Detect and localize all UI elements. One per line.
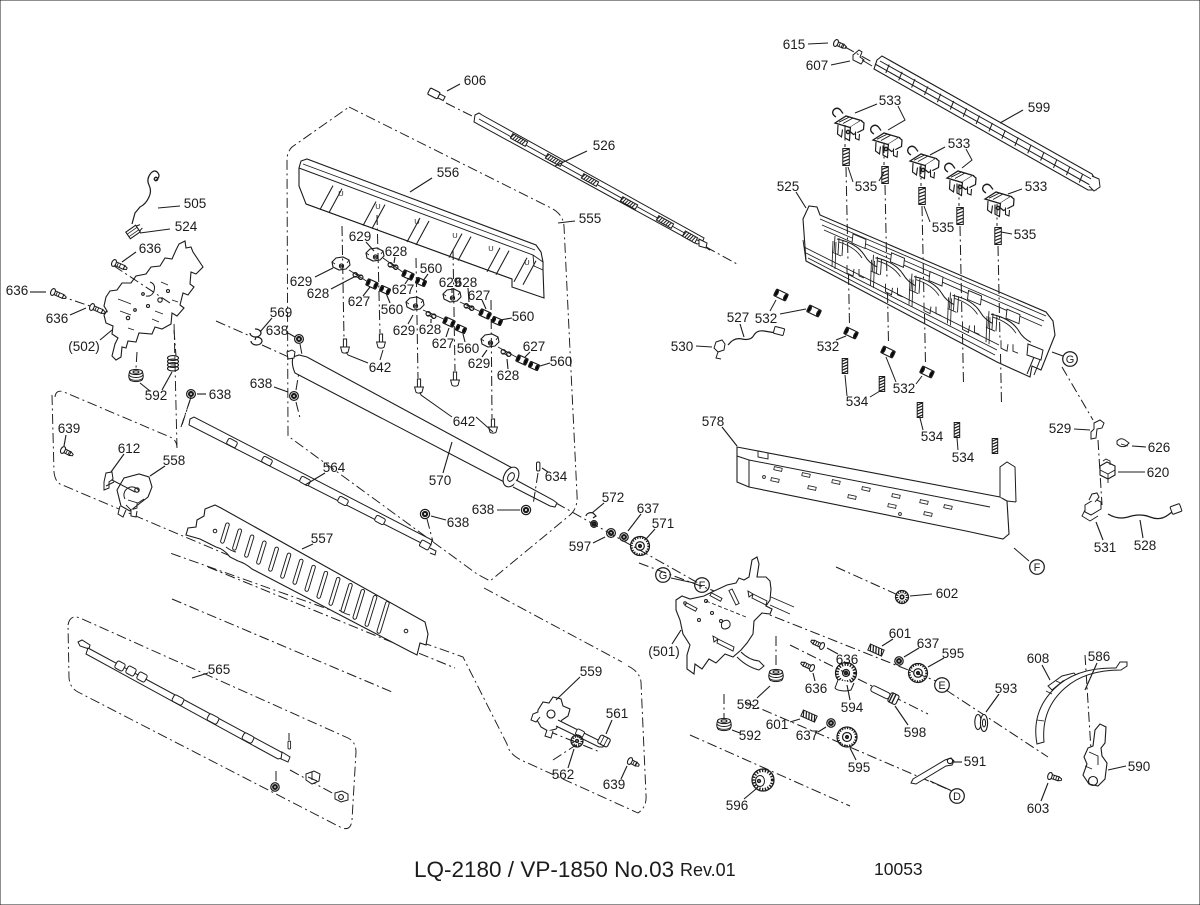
screw 636 b (50, 288, 68, 301)
svg-text:U: U (452, 231, 457, 240)
label 560 r2a (500, 309, 534, 324)
label 532 c (886, 357, 922, 396)
spring 534 #2 (879, 377, 885, 392)
svg-text:642: 642 (453, 414, 476, 429)
label 533 c (1008, 179, 1047, 194)
chain line row2 (423, 302, 481, 320)
label 556 (410, 165, 459, 192)
label 627 r2a (468, 288, 491, 309)
svg-text:612: 612 (118, 441, 141, 456)
svg-text:F: F (1034, 562, 1041, 574)
label 591 (953, 754, 986, 769)
svg-text:531: 531 (1094, 540, 1117, 555)
label 627 r1b (348, 287, 371, 309)
axis 525 to 529 (1062, 367, 1093, 420)
svg-text:628: 628 (385, 244, 408, 259)
axis 596 line (690, 735, 850, 806)
link 628 #5 (500, 349, 511, 357)
axis roller 570 to 571 gear (556, 503, 700, 584)
cable 528 (1108, 504, 1182, 519)
label 626 (1132, 440, 1170, 455)
lower paper guide 578 (737, 447, 1016, 539)
screw 636 lower-b (800, 660, 816, 673)
label 560 r3 (540, 354, 572, 369)
bushing 560 #3 (455, 324, 467, 334)
axis clip #3 (921, 164, 926, 364)
svg-text:570: 570 (429, 473, 452, 488)
axis 586 vertical (1085, 655, 1091, 750)
svg-text:Rev.01: Rev.01 (680, 860, 736, 880)
svg-text:525: 525 (777, 179, 800, 194)
axis 602 (836, 567, 898, 595)
svg-text:LQ-2180 / VP-1850 No.03: LQ-2180 / VP-1850 No.03 (414, 857, 674, 882)
label 629 r1b (290, 268, 333, 289)
label 629 r2b (393, 315, 416, 338)
label 637 a (628, 501, 659, 531)
axis clip #4 (959, 184, 964, 384)
screw 642 #5 (489, 419, 498, 433)
svg-text:564: 564 (323, 460, 346, 475)
label 636 c (46, 308, 86, 326)
link 628 #1 (352, 272, 363, 280)
phantom outline box 555 upper (287, 107, 577, 581)
svg-text:637: 637 (796, 728, 819, 743)
label 634 (542, 468, 568, 484)
label 629 r1a (349, 229, 374, 251)
circle D (950, 789, 965, 804)
svg-text:628: 628 (307, 286, 330, 301)
shaft 598 (869, 683, 899, 705)
plug 606 (427, 88, 445, 102)
axis 638 f (181, 400, 190, 427)
label 615 (783, 37, 828, 52)
chain line row1 (349, 258, 404, 282)
axis 501 to E circle (722, 596, 936, 681)
label 628 r1a (385, 244, 408, 263)
bracket 607 (853, 50, 872, 66)
svg-text:D: D (953, 791, 961, 803)
svg-text:638: 638 (250, 376, 273, 391)
label 628 r2a (455, 275, 478, 302)
svg-text:592: 592 (739, 728, 762, 743)
svg-text:572: 572 (602, 490, 625, 505)
gear 596 (752, 769, 774, 791)
svg-text:597: 597 (569, 539, 592, 554)
spring 601 a (868, 644, 884, 656)
label 596 (726, 789, 756, 813)
phantom outline box 565 lower-left (68, 617, 356, 829)
svg-text:527: 527 (727, 310, 750, 325)
gear 602 (896, 591, 909, 604)
roller holder 629 #3 (406, 297, 424, 310)
svg-text:U: U (414, 217, 419, 226)
gear 594 (835, 663, 857, 691)
label 561 (606, 706, 629, 734)
label 590 (1108, 759, 1150, 774)
label 636 b (6, 283, 46, 298)
label 527 (727, 310, 750, 337)
svg-text:533: 533 (948, 136, 971, 151)
leader G-F (671, 578, 694, 583)
axis clip #2 (884, 143, 889, 343)
svg-text:532: 532 (893, 381, 916, 396)
pin 565 axis (288, 733, 291, 749)
svg-text:636: 636 (46, 311, 69, 326)
tractor frame 525 (803, 206, 1055, 377)
axis 564 tip (181, 397, 191, 428)
label 534 c (952, 438, 975, 465)
label 560 r1a (420, 261, 443, 281)
label 534 b (920, 418, 944, 444)
caption model number (414, 857, 736, 882)
circle G right (1063, 352, 1078, 367)
label 637 c (796, 727, 826, 743)
screw 642 #3 (415, 379, 424, 393)
label 578 (702, 414, 737, 446)
bushing 532 #1 (774, 289, 789, 301)
svg-text:638: 638 (266, 323, 289, 338)
label 594 (841, 685, 864, 715)
label 629 r2a (439, 275, 462, 293)
label 528 (1134, 520, 1157, 553)
tractor clip 533 #3 (908, 146, 939, 178)
svg-text:634: 634 (545, 469, 568, 484)
tractor clip 533 #5 (983, 184, 1014, 216)
svg-text:535: 535 (932, 220, 955, 235)
label 529 (1049, 421, 1090, 436)
label 533 b (930, 136, 972, 168)
label 530 (671, 339, 712, 354)
label 592 b (737, 686, 770, 712)
pulley 593 (975, 715, 988, 732)
label 532 b (817, 336, 846, 354)
label 557 (302, 531, 333, 549)
axis 638e (427, 519, 433, 542)
bushing 560 #1 (379, 285, 391, 295)
axis 638 g (296, 372, 300, 418)
label 636 lower-b (805, 673, 828, 696)
svg-text:620: 620 (1147, 465, 1170, 480)
spring 535 #2 (882, 167, 889, 184)
washer 597 (607, 529, 616, 538)
svg-text:596: 596 (726, 798, 749, 813)
screw 636 lower-a (810, 638, 826, 651)
svg-text:601: 601 (889, 626, 912, 641)
svg-text:628: 628 (419, 322, 442, 337)
arm 608 (1048, 673, 1077, 690)
roller holder 629 #2 (366, 248, 384, 261)
bracket 590 (1083, 724, 1107, 786)
svg-text:638: 638 (472, 502, 495, 517)
wire 527 (728, 326, 785, 345)
svg-text:528: 528 (1134, 538, 1157, 553)
washer 637 b (895, 657, 903, 665)
svg-text:627: 627 (392, 282, 415, 297)
axis holder3 (416, 258, 418, 378)
axis 529 vertical (1098, 440, 1102, 505)
svg-text:592: 592 (737, 697, 760, 712)
nut 565 axis (335, 791, 348, 802)
spring 535 #1 (843, 149, 850, 166)
lever 529 (1091, 420, 1104, 439)
svg-text:629: 629 (468, 356, 491, 371)
spring 535 #5 (995, 228, 1002, 245)
label 601 b (766, 717, 800, 732)
edge guide strip 599 (874, 56, 1100, 191)
bushing 627 #4 (479, 309, 492, 320)
screw 615 (833, 39, 848, 51)
axis G-F main (639, 563, 717, 592)
label 639 b (603, 766, 627, 792)
label 638 g (250, 376, 288, 392)
svg-text:606: 606 (464, 73, 487, 88)
label 638 d (472, 502, 520, 517)
svg-text:599: 599 (1028, 100, 1051, 115)
bushing 532 #2 (807, 305, 822, 317)
washer 638 a (295, 335, 304, 344)
svg-text:560: 560 (550, 354, 573, 369)
svg-text:556: 556 (437, 165, 460, 180)
washer dark (591, 521, 598, 528)
svg-text:529: 529 (1049, 421, 1072, 436)
bushing 560 #2 (415, 277, 427, 287)
leader 591-D (930, 781, 950, 790)
label 592 c (732, 728, 761, 743)
bracket 531 (1082, 493, 1101, 521)
screw 639 a (59, 446, 74, 458)
spring 534 #4 (954, 423, 960, 438)
bracket 559 (531, 697, 604, 747)
label 525 (777, 179, 806, 208)
clip 572 (586, 513, 596, 518)
label 601 a (882, 626, 911, 646)
clamp 565 axis (306, 771, 320, 784)
axis 592a vertical (136, 330, 176, 368)
axis clip #1 (845, 125, 850, 325)
axis shaft 526 extensions (446, 103, 737, 264)
grommet 569 (250, 329, 262, 345)
label 565 (192, 662, 230, 678)
axis 638a (300, 344, 303, 360)
svg-text:G: G (659, 570, 668, 582)
shaft 565 (78, 640, 290, 762)
roller holder 629 #1 (332, 257, 350, 270)
screw 639 b (626, 757, 640, 769)
phantom outline box 559 (170, 553, 646, 813)
svg-text:639: 639 (603, 777, 626, 792)
svg-text:642: 642 (369, 360, 392, 375)
screw 642 #4 (451, 372, 460, 386)
spring 535 #3 (919, 188, 926, 205)
svg-text:(502): (502) (68, 339, 100, 354)
screw 642 #1 (341, 339, 350, 353)
label 597 (569, 537, 605, 554)
washer 637 a (620, 533, 628, 541)
label 524 (140, 219, 198, 234)
gear 562 (571, 735, 583, 747)
lever 591 (911, 758, 954, 787)
svg-text:629: 629 (393, 323, 416, 338)
svg-text:590: 590 (1128, 759, 1151, 774)
label 620 (1118, 465, 1169, 480)
svg-text:636: 636 (139, 241, 162, 256)
label 638 e (431, 515, 469, 530)
label 607 (806, 58, 850, 73)
label 628 r1b (307, 277, 354, 301)
svg-text:560: 560 (420, 261, 443, 276)
bushing 560 #4 (491, 316, 503, 326)
tractor clip 533 #1 (833, 108, 864, 140)
shaft 526 (474, 113, 710, 250)
washer 637 c (827, 719, 835, 727)
svg-text:636: 636 (6, 283, 29, 298)
bracket (502) (57, 241, 203, 360)
svg-text:608: 608 (1027, 651, 1050, 666)
label 637 b (904, 636, 939, 657)
axis 565 parts (290, 770, 345, 800)
svg-text:E: E (938, 680, 945, 692)
svg-text:637: 637 (637, 501, 660, 516)
svg-text:595: 595 (848, 760, 871, 775)
label 593 (986, 681, 1017, 712)
svg-text:532: 532 (817, 339, 840, 354)
svg-text:530: 530 (671, 339, 694, 354)
washer 638 g (290, 392, 299, 401)
bushing 532 #5 (920, 366, 935, 378)
frame (501) (676, 557, 794, 674)
label 628 r2b (419, 319, 442, 337)
cup 592 c (717, 718, 732, 730)
label 526 (555, 138, 615, 166)
svg-text:627: 627 (432, 336, 455, 351)
link 628 #3 (425, 311, 436, 319)
axis 562 /561 (548, 731, 600, 760)
axis holder1 (342, 226, 344, 338)
axis 601-595 lower (745, 702, 952, 791)
bushing 627 #3 (443, 317, 456, 328)
svg-text:560: 560 (381, 302, 404, 317)
svg-text:F: F (699, 580, 706, 592)
leader 612-558 (112, 480, 135, 492)
svg-text:535: 535 (855, 179, 878, 194)
axis holder2 (377, 215, 380, 333)
axis 592 cups vertical (724, 636, 776, 719)
washer 638 d (521, 505, 530, 514)
svg-text:560: 560 (457, 341, 480, 356)
svg-text:615: 615 (783, 37, 806, 52)
svg-text:10053: 10053 (874, 859, 923, 879)
label 569 (260, 305, 292, 332)
circle F right (1030, 560, 1045, 575)
feed shaft 564 (189, 417, 436, 555)
leader 608-586 (1063, 690, 1078, 696)
svg-text:526: 526 (593, 138, 616, 153)
bushing 627 #1 (366, 279, 379, 290)
svg-text:559: 559 (580, 664, 603, 679)
link 628 #4 (463, 303, 474, 311)
label 586 (1085, 649, 1110, 690)
svg-text:593: 593 (995, 681, 1018, 696)
spring 534 #1 (842, 359, 848, 374)
spring 601 b (801, 710, 817, 722)
platen roller 570 (287, 350, 557, 507)
svg-text:594: 594 (841, 700, 864, 715)
caption sheet number (874, 859, 923, 879)
circle G mid (656, 568, 671, 583)
label 595 a (928, 646, 964, 667)
svg-text:524: 524 (175, 219, 198, 234)
cup 592 a (129, 369, 144, 381)
phantom diagonal line to 559 box (208, 567, 455, 668)
screw 636 a (111, 259, 129, 272)
svg-text:603: 603 (1027, 801, 1050, 816)
label 505 (158, 196, 206, 211)
svg-text:595: 595 (942, 646, 965, 661)
label 571 (646, 516, 674, 539)
svg-text:578: 578 (702, 414, 725, 429)
svg-text:U: U (524, 258, 529, 267)
label 627 r1a (392, 278, 415, 297)
svg-text:532: 532 (755, 311, 778, 326)
svg-text:558: 558 (163, 453, 186, 468)
svg-text:569: 569 (270, 305, 293, 320)
leader G right (1052, 352, 1063, 356)
label 627 r3 (523, 339, 546, 357)
tractor clip 533 #4 (945, 163, 976, 195)
axis holder5 (491, 300, 492, 418)
axis 594-598 (790, 645, 928, 714)
hook 626 (1117, 439, 1129, 447)
label 627 r2b (432, 328, 455, 351)
paper guide panel 556 (299, 159, 544, 298)
washer 638 e (420, 509, 429, 518)
bushing 627 #2 (402, 270, 415, 281)
circle E (935, 678, 950, 693)
svg-text:627: 627 (348, 294, 371, 309)
label 572 (592, 490, 624, 513)
spring 534 #3 (917, 403, 923, 418)
label 628 r3 (497, 359, 520, 383)
label 535 a (848, 167, 884, 194)
svg-text:607: 607 (806, 58, 829, 73)
roller holder 629 #5 (481, 334, 499, 347)
link 628 #2 (387, 262, 398, 270)
roller holder 629 #4 (443, 289, 461, 302)
label 559 (556, 664, 602, 700)
svg-text:627: 627 (523, 339, 546, 354)
svg-text:505: 505 (184, 196, 207, 211)
svg-text:534: 534 (846, 394, 869, 409)
svg-text:U: U (375, 202, 380, 211)
svg-text:555: 555 (579, 211, 602, 226)
bracket 558 (117, 474, 152, 517)
label 639 a (58, 421, 81, 446)
label 595 b (848, 748, 871, 775)
phantom diagonal line mid (172, 599, 392, 692)
bushing 627 #5 (516, 355, 529, 366)
svg-text:598: 598 (904, 725, 927, 740)
connector 524 (126, 223, 144, 239)
svg-text:629: 629 (349, 229, 372, 244)
label 570 (429, 442, 452, 488)
svg-text:636: 636 (805, 681, 828, 696)
bushing 560 #5 (528, 361, 540, 371)
svg-text:U: U (338, 189, 343, 198)
svg-text:638: 638 (209, 387, 232, 402)
gear 571 (631, 537, 650, 556)
label 598 (895, 706, 926, 740)
label 642 a (346, 350, 391, 375)
